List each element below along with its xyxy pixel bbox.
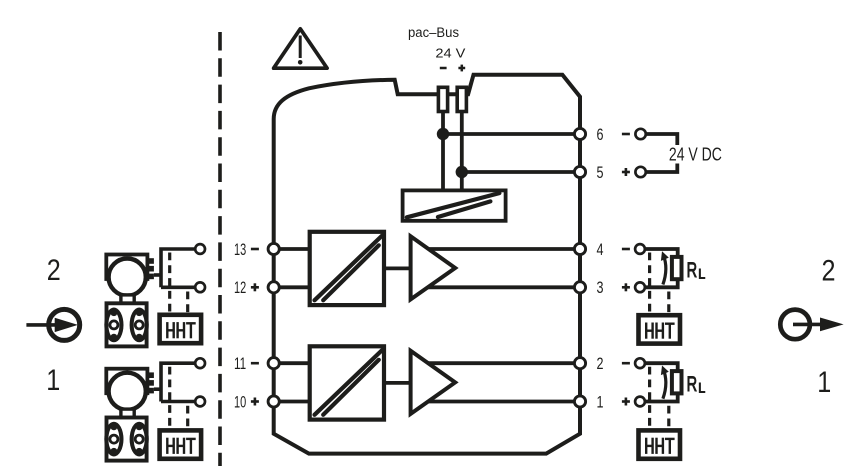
polarity minus (bus) [440, 67, 447, 70]
wire to terminal 5 [462, 170, 580, 174]
wire isolator to amp ch2 [384, 266, 411, 270]
isolation converter ch2 [310, 232, 384, 305]
junction dot bus plus [456, 166, 468, 178]
24VDC supply bracket wire [646, 134, 678, 172]
warning triangle [274, 29, 328, 68]
24VDC supply circle plus [635, 167, 645, 177]
output arrow symbol [780, 310, 843, 340]
label 24 V DC [667, 145, 725, 164]
plus terminal 12 [251, 283, 259, 291]
svg-text:6: 6 [597, 125, 604, 144]
wire terminal 12 to isolator ch2 [274, 285, 310, 289]
transmitter T1 [104, 369, 154, 461]
wire bus minus down [441, 113, 445, 191]
wire amp to terminal 3 [428, 285, 580, 289]
24VDC supply minus [622, 133, 630, 136]
minus terminal 13 [251, 248, 259, 251]
svg-text:11: 11 [234, 354, 246, 373]
power supply converter [403, 190, 506, 220]
svg-text:1: 1 [46, 364, 60, 397]
wire terminal 10 to isolator ch1 [274, 400, 310, 404]
amplifier ch1 [411, 351, 456, 414]
wire to terminal 6 [443, 132, 580, 136]
HHT handheld ch2 right [639, 315, 681, 343]
terminal 3 [574, 282, 585, 293]
svg-text:2: 2 [47, 254, 61, 287]
HHT handheld ch2 left [160, 315, 202, 343]
terminal 6 [574, 128, 585, 139]
load resistor RL ch2 [622, 244, 705, 313]
svg-text:1: 1 [817, 366, 831, 399]
wire isolator to amp ch1 [384, 381, 411, 385]
terminal 5 [574, 166, 585, 177]
wire amp to terminal 2 [429, 361, 581, 365]
bus connector pin plus [457, 87, 466, 111]
svg-text:24 V: 24 V [435, 45, 465, 60]
terminal 13 [268, 243, 279, 254]
transmitter T2 [104, 255, 154, 347]
svg-text:2: 2 [822, 255, 836, 288]
svg-text:24 V DC: 24 V DC [669, 145, 722, 165]
svg-text:5: 5 [597, 163, 604, 182]
svg-text:12: 12 [234, 278, 246, 297]
dashed separation line [218, 32, 222, 466]
24VDC supply plus [622, 168, 630, 176]
amplifier ch2 [411, 236, 456, 299]
bus connector pin minus [438, 87, 447, 111]
wiring transmitter T1 [154, 358, 205, 427]
wire amp to terminal 1 [428, 400, 580, 404]
wire amp to terminal 4 [429, 247, 581, 251]
terminal 11 [268, 358, 279, 369]
svg-text:pac–Bus: pac–Bus [408, 25, 459, 40]
24VDC supply circle minus [635, 129, 645, 139]
svg-text:3: 3 [597, 278, 604, 297]
terminal 10 [268, 396, 279, 407]
terminal 12 [268, 282, 279, 293]
terminal 1 [574, 396, 585, 407]
wire bus plus down [460, 113, 464, 191]
junction dot bus minus [437, 128, 449, 140]
HHT handheld ch1 right [639, 430, 681, 458]
plus terminal 10 [251, 398, 259, 406]
terminal 4 [574, 243, 585, 254]
wire terminal 11 to isolator ch1 [274, 361, 310, 365]
svg-text:1: 1 [597, 392, 604, 411]
terminal 2 [574, 358, 585, 369]
minus terminal 11 [251, 362, 259, 365]
isolator block outline [274, 75, 580, 454]
svg-text:2: 2 [597, 354, 604, 373]
load resistor RL ch1 [622, 358, 705, 427]
polarity plus (bus) [458, 65, 465, 72]
wiring transmitter T2 [154, 244, 205, 313]
isolation converter ch1 [310, 346, 384, 419]
svg-text:10: 10 [234, 392, 246, 411]
wire terminal 13 to isolator ch2 [274, 247, 310, 251]
svg-text:13: 13 [234, 240, 246, 259]
input arrow symbol [26, 309, 79, 340]
svg-text:4: 4 [597, 240, 604, 259]
HHT handheld ch1 left [160, 430, 202, 458]
